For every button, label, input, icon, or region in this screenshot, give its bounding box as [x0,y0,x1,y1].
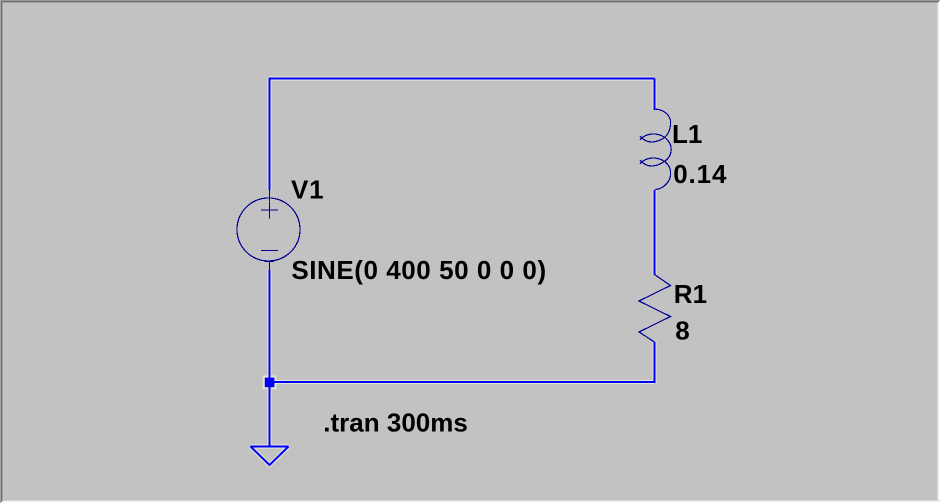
svg-text:0.14: 0.14 [673,159,727,189]
svg-text:L1: L1 [672,119,702,149]
svg-text:R1: R1 [674,279,707,309]
svg-text:V1: V1 [291,175,324,205]
svg-text:SINE(0 400 50 0 0 0): SINE(0 400 50 0 0 0) [291,255,546,285]
svg-text:8: 8 [675,316,689,346]
svg-text:.tran 300ms: .tran 300ms [323,407,468,437]
